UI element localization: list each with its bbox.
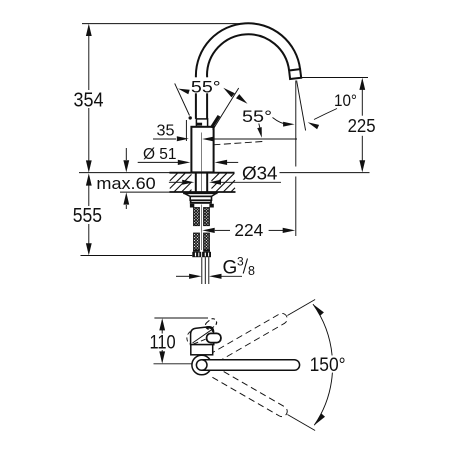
svg-text:224: 224 xyxy=(234,220,263,240)
svg-text:G: G xyxy=(223,258,238,279)
svg-text:55°: 55° xyxy=(242,108,272,126)
collar below riser pipe xyxy=(196,119,207,127)
counter hatching xyxy=(170,173,235,191)
svg-text:10°: 10° xyxy=(334,92,357,110)
handle dashed left arc xyxy=(187,332,190,345)
svg-text:150°: 150° xyxy=(310,354,346,376)
counter bottom line xyxy=(120,191,170,193)
55deg bowtie arrows xyxy=(223,88,235,98)
55deg left arrow xyxy=(178,89,190,95)
svg-text:3: 3 xyxy=(237,255,244,269)
55deg right radiating line xyxy=(213,88,239,130)
swivel base outer circle xyxy=(192,355,212,375)
svg-text:555: 555 xyxy=(73,204,102,227)
110 top extension line xyxy=(154,317,208,319)
svg-text:225: 225 xyxy=(348,116,376,136)
354 dimension line xyxy=(88,26,90,90)
vertical stream reference line xyxy=(295,81,297,167)
spout aerator tip xyxy=(289,69,301,79)
150deg arc upper segment xyxy=(313,304,332,355)
dashed spout position upper xyxy=(209,311,289,363)
10deg leader and arrow xyxy=(314,109,337,120)
mounting nut dark band xyxy=(190,200,212,204)
connection tubes xyxy=(201,257,203,284)
svg-text:Ø 51: Ø 51 xyxy=(143,146,177,163)
svg-text:Ø34: Ø34 xyxy=(242,164,278,184)
225 dimension line xyxy=(361,80,363,116)
lower extension line xyxy=(287,415,315,431)
svg-text:8: 8 xyxy=(248,264,255,278)
phantom lever horizontal dashed line xyxy=(213,142,262,145)
faucet body xyxy=(191,127,213,173)
224 dimension line right xyxy=(269,229,283,231)
handle internal line xyxy=(194,339,207,344)
G3/8 dimension lines xyxy=(176,275,189,277)
body top view xyxy=(191,345,213,355)
faucet spout gooseneck tube xyxy=(196,23,300,75)
110 bottom extension line xyxy=(154,363,192,365)
max.60 dimension xyxy=(125,148,127,160)
handle dashed tip xyxy=(204,317,218,331)
35 dimension lines xyxy=(153,138,176,140)
handle internal diagonal xyxy=(193,330,212,343)
upper extension line xyxy=(287,300,315,316)
body centerline xyxy=(201,133,203,204)
braided hoses lower section xyxy=(194,233,200,250)
svg-text:110: 110 xyxy=(150,333,176,354)
555 bottom extension line xyxy=(81,255,193,257)
55deg no.2 right leader to vertical line xyxy=(273,118,289,125)
angled 10deg stream line xyxy=(297,81,306,131)
svg-text:max.60: max.60 xyxy=(96,175,155,193)
faucet riser pipe xyxy=(195,76,197,119)
handle lever cap top view xyxy=(207,333,221,342)
150deg arc lower segment xyxy=(314,373,332,426)
55deg left radiating line xyxy=(175,83,190,115)
mounting washer xyxy=(184,193,218,197)
O51 dimension lines xyxy=(138,161,178,163)
555 dimension line xyxy=(88,176,90,206)
224 dimension line left xyxy=(202,228,215,233)
counter top line xyxy=(79,172,170,174)
225 top extension line xyxy=(302,77,369,79)
O34 dimension lines xyxy=(169,181,182,183)
mounting nut white band xyxy=(190,196,211,200)
lever pivot detail xyxy=(189,116,192,119)
spout top view xyxy=(202,360,300,371)
handle top view body xyxy=(191,327,214,345)
hose end ferrules xyxy=(193,250,200,252)
svg-text:55°: 55° xyxy=(191,78,221,96)
lever handle raised xyxy=(211,116,219,128)
55deg no.1 label xyxy=(190,77,221,93)
hose collars xyxy=(190,204,194,208)
hose end nuts xyxy=(192,252,201,257)
110 dimension line xyxy=(161,321,163,334)
150deg arc arrows xyxy=(313,304,324,316)
dashed spout position lower xyxy=(209,366,289,418)
svg-text:35: 35 xyxy=(157,123,175,140)
threaded shank xyxy=(195,173,197,193)
braided hoses upper section xyxy=(194,208,200,226)
swivel inner circle xyxy=(196,360,207,371)
55deg no.2 down leader and arrow xyxy=(259,124,262,134)
svg-text:354: 354 xyxy=(74,89,104,112)
354 top extension line xyxy=(82,23,244,25)
